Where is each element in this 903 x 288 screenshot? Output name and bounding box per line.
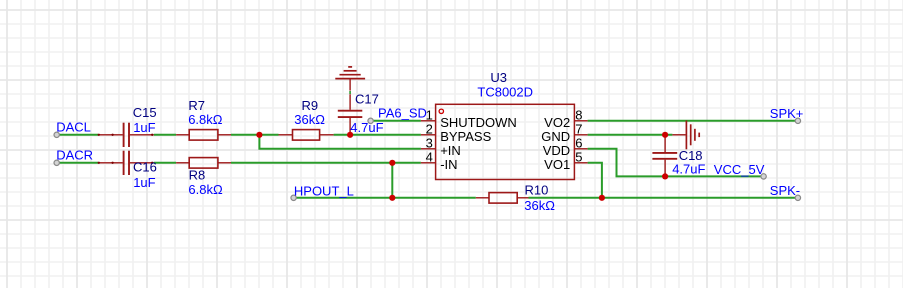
node HPOUT_L pad <box>291 195 296 200</box>
svg-text:6.8kΩ: 6.8kΩ <box>188 112 223 127</box>
wire pin 8 VO2 to SPK+ pad <box>588 120 798 122</box>
wire R7 to node A <box>231 134 259 136</box>
pin 1 SHUTDOWN <box>421 120 436 122</box>
wire HPOUT_L pad to R10 <box>294 197 476 199</box>
resistor R10 <box>476 193 529 204</box>
svg-text:DACL: DACL <box>56 120 91 135</box>
wire R10 to node E to SPK- pad <box>529 197 798 199</box>
pin 5 VO1 <box>574 162 587 164</box>
node SPK- pad <box>795 195 800 200</box>
wire PA6_SD pad to pin 1 <box>371 120 421 122</box>
U3 pin-1 indicator circle <box>439 109 443 113</box>
junction node F (GND/C18 top) <box>662 132 668 138</box>
node VCC_5V pad <box>761 174 766 179</box>
svg-text:R7: R7 <box>188 98 205 113</box>
pin 6 VDD <box>574 148 587 150</box>
wire node A down to +IN pin 3 <box>259 135 421 149</box>
svg-text:8: 8 <box>575 108 582 123</box>
pin 3 +IN <box>421 148 436 150</box>
resistor R7 <box>176 130 231 141</box>
node SPK+ pad <box>795 118 800 123</box>
svg-text:VDD: VDD <box>543 143 570 158</box>
svg-text:1uF: 1uF <box>133 175 155 190</box>
svg-text:4.7uF: 4.7uF <box>350 120 383 135</box>
pin 2 BYPASS <box>421 134 436 136</box>
op-amp U3 TC8002D body <box>436 104 575 179</box>
junction node G (VDD/C18 bottom) <box>662 173 668 179</box>
junction node C (-IN/HPOUT_L) <box>389 160 395 166</box>
svg-text:1uF: 1uF <box>133 120 155 135</box>
junction node B (C17/BYPASS) <box>347 132 353 138</box>
svg-text:C15: C15 <box>133 105 157 120</box>
wire node A to R9 <box>259 134 278 136</box>
svg-text:2: 2 <box>426 122 433 137</box>
wire ground stem to C17 <box>349 91 351 94</box>
svg-text:6: 6 <box>575 136 582 151</box>
pin 4 -IN <box>421 162 436 164</box>
svg-text:VO2: VO2 <box>544 115 570 130</box>
wire R8 through node C to -IN pin 4 <box>231 162 421 164</box>
wire C16 to R8 <box>154 162 176 164</box>
svg-text:36kΩ: 36kΩ <box>524 198 555 213</box>
svg-text:7: 7 <box>575 122 582 137</box>
svg-text:VCC_5V: VCC_5V <box>714 162 765 177</box>
ground (above C17) <box>335 67 365 91</box>
svg-text:SPK+: SPK+ <box>770 106 804 121</box>
svg-text:DACR: DACR <box>56 147 93 162</box>
junction node E (VO1/R10/SPK-) <box>599 195 605 201</box>
svg-text:36kΩ: 36kΩ <box>294 112 325 127</box>
svg-text:5: 5 <box>575 150 582 165</box>
wire node D up to node C <box>391 163 393 198</box>
pin 7 GND <box>574 134 587 136</box>
pin 8 VO2 <box>574 120 587 122</box>
svg-text:3: 3 <box>426 136 433 151</box>
capacitor C16 <box>98 151 154 175</box>
svg-text:PA6_SD: PA6_SD <box>378 105 427 120</box>
wire C18 bottom to VCC_5V pad <box>665 175 764 177</box>
wire C15 to R7 <box>154 134 176 136</box>
node DACL pad <box>54 132 59 137</box>
svg-text:R8: R8 <box>189 168 206 183</box>
resistor R9 <box>279 130 334 141</box>
svg-text:4: 4 <box>426 150 433 165</box>
junction node A (R7/R9/+IN) <box>256 132 262 138</box>
node PA6_SD pad <box>368 118 373 123</box>
svg-text:SHUTDOWN: SHUTDOWN <box>440 115 517 130</box>
wire pin 7 GND to ground <box>588 134 673 136</box>
svg-text:-IN: -IN <box>440 157 457 172</box>
svg-text:C16: C16 <box>133 159 157 174</box>
svg-text:R10: R10 <box>525 182 549 197</box>
svg-text:4.7uF: 4.7uF <box>672 162 705 177</box>
svg-text:SPK-: SPK- <box>770 183 800 198</box>
node DACR pad <box>54 160 59 165</box>
resistor R8 <box>176 158 231 169</box>
ground (right of C18, rotated) <box>672 121 699 150</box>
wire pin 5 VO1 down to node E <box>588 163 602 198</box>
junction node D (HPOUT_L row) <box>389 195 395 201</box>
svg-text:U3: U3 <box>490 70 507 85</box>
svg-text:BYPASS: BYPASS <box>440 129 491 144</box>
svg-text:HPOUT_L: HPOUT_L <box>294 183 354 198</box>
svg-text:6.8kΩ: 6.8kΩ <box>188 182 223 197</box>
svg-text:VO1: VO1 <box>544 157 570 172</box>
svg-text:GND: GND <box>541 129 570 144</box>
svg-text:+IN: +IN <box>440 143 461 158</box>
svg-text:C17: C17 <box>355 91 379 106</box>
capacitor C15 <box>98 123 154 147</box>
capacitor C17 <box>338 94 363 135</box>
capacitor C18 <box>652 135 677 177</box>
wire R9 to node B to pin 2 <box>334 134 421 136</box>
wire DACL pad to C15 <box>57 134 98 136</box>
svg-text:TC8002D: TC8002D <box>477 85 533 100</box>
wire pin 6 VDD down to VCC_5V rail <box>588 149 666 177</box>
svg-text:R9: R9 <box>302 98 319 113</box>
wire DACR pad to C16 <box>57 162 98 164</box>
